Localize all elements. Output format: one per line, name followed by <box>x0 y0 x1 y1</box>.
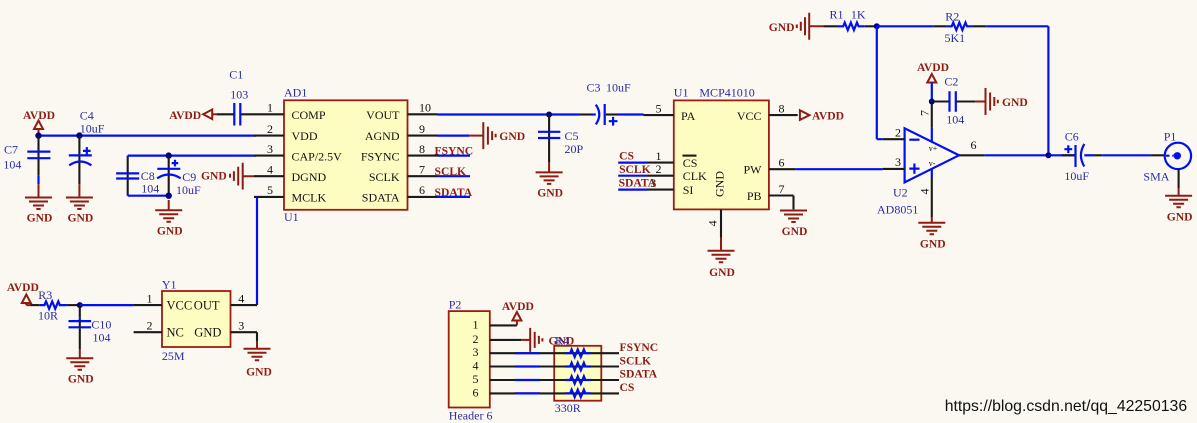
svg-text:6: 6 <box>473 385 479 399</box>
svg-text:OUT: OUT <box>194 298 220 312</box>
svg-text:GND: GND <box>194 326 221 340</box>
capacitor C8 <box>116 158 159 196</box>
svg-text:10uF: 10uF <box>80 122 105 136</box>
svg-text:C9: C9 <box>182 170 196 184</box>
svg-text:GND: GND <box>920 237 946 250</box>
wire VOUT net <box>438 113 581 115</box>
ground GND (U1 pin 4) <box>708 238 735 279</box>
svg-text:GND: GND <box>246 365 272 378</box>
power AVDD (U1 pin 8) <box>800 110 844 123</box>
svg-text:MCP41010: MCP41010 <box>699 86 754 100</box>
pin 2 U2 inverting <box>883 125 905 139</box>
svg-text:SI: SI <box>683 183 694 197</box>
svg-text:GND: GND <box>713 171 727 197</box>
capacitor C2 104 <box>932 75 976 127</box>
svg-text:FSYNC: FSYNC <box>361 149 400 163</box>
svg-text:GND: GND <box>1002 96 1028 109</box>
svg-text:2: 2 <box>895 125 901 139</box>
wire AD1 pin5 MCLK to Y1 OUT <box>256 197 258 305</box>
svg-text:VCC: VCC <box>737 109 762 123</box>
net label FSYNC <box>435 144 474 157</box>
pin 5 P2 wire + resistor R4c <box>490 376 619 384</box>
svg-text:Header 6: Header 6 <box>449 409 493 423</box>
pin 1 AD1 COMP <box>240 101 284 115</box>
svg-text:GND: GND <box>157 225 183 238</box>
svg-text:PW: PW <box>744 163 763 177</box>
capacitor C10 104 <box>69 305 112 358</box>
IC AD1 (AD9833 DDS) body <box>284 86 408 225</box>
wire C8 bottom to C9 bottom <box>128 194 169 196</box>
wire inverting feedback <box>877 26 883 139</box>
svg-text:8: 8 <box>779 101 785 115</box>
svg-text:9: 9 <box>419 122 425 136</box>
svg-text:GND: GND <box>27 212 53 225</box>
pin 4 Y1 OUT <box>231 291 258 305</box>
svg-text:3: 3 <box>473 345 479 359</box>
capacitor C3 10uF <box>580 81 644 126</box>
svg-text:AVDD: AVDD <box>812 110 844 123</box>
pin 6 U2 output <box>959 138 985 156</box>
svg-text:10: 10 <box>419 101 431 115</box>
svg-text:2: 2 <box>267 122 273 136</box>
svg-text:NC: NC <box>167 326 184 340</box>
svg-text:MCLK: MCLK <box>292 191 327 205</box>
capacitor C9 10uF <box>157 156 201 198</box>
svg-text:4: 4 <box>918 189 932 195</box>
pin 9 AD1 AGND <box>408 122 438 136</box>
svg-text:v-: v- <box>929 159 936 168</box>
svg-text:3: 3 <box>895 155 901 169</box>
pin 1 Y1 VCC <box>134 291 162 305</box>
svg-text:COMP: COMP <box>292 108 326 122</box>
svg-text:VCC: VCC <box>167 298 193 312</box>
svg-text:R2: R2 <box>945 10 959 24</box>
svg-text:SCLK: SCLK <box>435 165 467 178</box>
svg-text:1: 1 <box>473 317 479 331</box>
pin 3 U2 non-inverting <box>883 155 905 169</box>
svg-text:P2: P2 <box>449 298 462 312</box>
svg-text:C7: C7 <box>4 143 18 157</box>
pin 5 U1 PA <box>644 101 674 115</box>
svg-text:2: 2 <box>656 162 662 176</box>
resistor R2 5K1 <box>933 10 986 46</box>
svg-text:FSYNC: FSYNC <box>620 341 659 354</box>
svg-text:330R: 330R <box>555 401 581 415</box>
svg-text:7: 7 <box>419 162 425 176</box>
svg-text:1: 1 <box>656 149 662 163</box>
pin 5 AD1 MCLK <box>254 183 284 197</box>
pin 2 AD1 VDD <box>254 122 284 136</box>
svg-text:5: 5 <box>267 183 273 197</box>
svg-text:VDD: VDD <box>292 129 318 143</box>
svg-text:2: 2 <box>147 318 153 332</box>
pin 4 P2 wire + resistor R4b <box>490 363 619 371</box>
ground GND (under C9) <box>155 200 182 238</box>
capacitor C5 20P <box>538 115 584 173</box>
svg-text:AVDD: AVDD <box>7 281 39 294</box>
svg-text:104: 104 <box>3 157 21 171</box>
svg-text:SMA: SMA <box>1143 170 1169 184</box>
pin 7 U1 PB <box>769 182 794 209</box>
ground GND (P2 pin 2) <box>521 328 574 352</box>
pin 7 AD1 SCLK <box>408 162 438 176</box>
svg-text:5: 5 <box>656 101 662 115</box>
svg-text:C6: C6 <box>1065 130 1079 144</box>
ground GND (AD1 pin 4 DGND) <box>201 163 254 190</box>
svg-text:GND: GND <box>68 212 94 225</box>
svg-text:AD1: AD1 <box>284 86 307 100</box>
svg-text:GND: GND <box>537 187 563 200</box>
svg-text:U2: U2 <box>893 186 908 200</box>
net label SDATA <box>435 186 473 199</box>
svg-text:C3: C3 <box>587 81 601 95</box>
wire AD1 pin 9 to ground <box>438 135 470 137</box>
ground GND (Y1 pin 3) <box>244 341 272 378</box>
svg-text:1: 1 <box>147 291 153 305</box>
svg-text:10uF: 10uF <box>1064 169 1089 183</box>
svg-text:AVDD: AVDD <box>917 61 949 74</box>
svg-text:5: 5 <box>473 372 479 386</box>
svg-text:10uF: 10uF <box>176 183 201 197</box>
svg-text:R4: R4 <box>555 334 569 348</box>
svg-text:7: 7 <box>779 182 785 196</box>
svg-text:CS: CS <box>620 381 635 394</box>
svg-text:SDATA: SDATA <box>619 177 657 190</box>
pin 2 P2 <box>490 339 522 341</box>
oscillator Y1 25M body <box>162 278 231 363</box>
pin 3 Y1 GND <box>231 318 258 341</box>
svg-text:DGND: DGND <box>292 170 327 184</box>
resistor network R4 body <box>554 334 601 415</box>
power AVDD (R3) <box>7 281 39 305</box>
node junction C4 <box>76 132 82 138</box>
pin 10 AD1 VOUT <box>408 101 438 115</box>
ground GND (R1 left) <box>769 13 824 40</box>
power AVDD (P2 pin 1) <box>502 300 534 326</box>
svg-text:3: 3 <box>267 142 273 156</box>
svg-text:6: 6 <box>971 138 977 152</box>
node junction AVDD/C7 <box>35 132 41 138</box>
capacitor C4 10uF <box>69 109 105 198</box>
capacitor C1 103 <box>217 68 249 126</box>
svg-text:104: 104 <box>141 182 159 196</box>
svg-text:C5: C5 <box>565 129 579 143</box>
svg-text:4: 4 <box>238 291 244 305</box>
capacitor C6 10uF <box>1062 130 1151 184</box>
svg-text:Y1: Y1 <box>162 278 177 292</box>
svg-text:2: 2 <box>473 332 479 346</box>
pin 4 U2 V- <box>918 169 932 217</box>
node junction output/R2 <box>1045 152 1051 158</box>
power AVDD (AD1 pin 1) <box>169 109 216 122</box>
svg-text:R1: R1 <box>830 7 844 21</box>
wire AVDD rail to AD1 pin 2 <box>39 135 257 137</box>
svg-text:https://blog.csdn.net/qq_42250: https://blog.csdn.net/qq_42250136 <box>945 398 1188 415</box>
power AVDD (U2 pin 7) <box>917 61 949 102</box>
svg-text:4: 4 <box>473 359 479 373</box>
svg-text:VOUT: VOUT <box>366 108 400 122</box>
pin 1 U1 CS + net label CS <box>618 149 674 163</box>
svg-text:GND: GND <box>1167 211 1193 224</box>
svg-text:104: 104 <box>93 331 111 345</box>
pin 4 AD1 DGND <box>254 162 284 176</box>
svg-text:AD8051: AD8051 <box>877 203 918 217</box>
pin 4 U1 GND <box>706 209 721 237</box>
svg-text:P1: P1 <box>1164 129 1177 143</box>
svg-text:20P: 20P <box>565 142 584 156</box>
svg-text:CLK: CLK <box>683 169 707 183</box>
resistor R1 1K <box>823 7 876 30</box>
svg-text:10uF: 10uF <box>606 81 631 95</box>
svg-text:U1: U1 <box>674 86 689 100</box>
capacitor C7 <box>3 136 50 198</box>
ground GND (under C7) <box>25 198 52 225</box>
svg-text:SCLK: SCLK <box>619 163 651 176</box>
node junction R1/R2 <box>874 23 880 29</box>
svg-text:GND: GND <box>201 170 227 183</box>
svg-text:PB: PB <box>747 189 762 203</box>
ground GND (P1 shell) <box>1165 188 1192 224</box>
wire U2 output to C6 <box>985 154 1073 156</box>
svg-text:AVDD: AVDD <box>502 300 534 313</box>
svg-text:AVDD: AVDD <box>169 109 201 122</box>
pin 6 AD1 SDATA <box>408 183 438 197</box>
svg-text:104: 104 <box>946 113 964 127</box>
op-amp U2 AD8051 <box>877 128 959 216</box>
ground GND (U2 pin 4) <box>918 217 945 250</box>
pin 8 AD1 FSYNC <box>408 142 438 156</box>
ground GND (under C4) <box>66 198 93 225</box>
svg-text:SCLK: SCLK <box>620 354 652 367</box>
svg-text:7: 7 <box>918 110 932 116</box>
node junction R3/C10/Y1 <box>77 302 83 308</box>
svg-text:103: 103 <box>230 88 248 102</box>
connector P2 Header 6 body <box>449 298 493 423</box>
svg-text:U1: U1 <box>284 210 299 224</box>
power AVDD (top-left) <box>23 109 55 136</box>
ground GND (under C10) <box>66 358 93 385</box>
pin 8 U1 VCC <box>769 101 798 115</box>
ground GND (AD1 pin 9 AGND) <box>469 122 525 149</box>
wire junction to R2 <box>877 25 933 27</box>
svg-text:6: 6 <box>419 183 425 197</box>
net label SCLK <box>435 165 471 178</box>
svg-text:CS: CS <box>683 156 698 170</box>
pin 6 U1 PW <box>769 155 795 169</box>
resistor R3 10R <box>31 288 80 323</box>
svg-text:GND: GND <box>782 225 808 238</box>
svg-text:C2: C2 <box>944 75 958 89</box>
svg-text:GND: GND <box>769 21 795 34</box>
svg-text:v+: v+ <box>929 144 938 153</box>
svg-text:1: 1 <box>267 101 273 115</box>
wire U1 PW to op-amp <box>795 168 883 171</box>
svg-text:8: 8 <box>419 142 425 156</box>
svg-text:3: 3 <box>238 318 244 332</box>
svg-text:SCLK: SCLK <box>369 170 400 184</box>
pin 2 U1 CLK + net label SCLK <box>618 162 674 176</box>
svg-text:GND: GND <box>499 130 525 143</box>
wire R2 to output node <box>986 26 1048 155</box>
pin 3 AD1 CAP/2.5V <box>254 142 284 156</box>
svg-text:SDATA: SDATA <box>362 191 400 205</box>
svg-text:R3: R3 <box>38 288 52 302</box>
node junction C5 <box>546 112 552 118</box>
pin 6 P2 wire + resistor R4d <box>490 390 619 398</box>
svg-text:FSYNC: FSYNC <box>435 144 474 157</box>
ground GND (under C5) <box>536 172 563 199</box>
IC U1 MCP41010 body <box>674 86 769 210</box>
svg-text:5K1: 5K1 <box>945 31 966 45</box>
svg-text:25M: 25M <box>162 349 185 363</box>
svg-text:GND: GND <box>68 373 94 386</box>
pin 3 P2 wire + resistor R4a <box>490 349 619 357</box>
node junction C9 bottom <box>166 193 172 199</box>
svg-text:PA: PA <box>681 109 696 123</box>
svg-text:AGND: AGND <box>365 129 400 143</box>
svg-text:CS: CS <box>619 149 634 162</box>
svg-text:C1: C1 <box>229 68 243 82</box>
svg-text:C10: C10 <box>91 318 111 332</box>
svg-text:CAP/2.5V: CAP/2.5V <box>292 149 343 163</box>
svg-text:4: 4 <box>706 220 720 226</box>
connector P1 SMA <box>1143 129 1191 188</box>
wire R3 node to Y1 pin 1 <box>80 304 134 306</box>
svg-text:6: 6 <box>779 155 785 169</box>
ground GND (U1 pin 7 PB) <box>780 209 807 238</box>
pin 3 U1 SI + net label SDATA <box>618 176 674 190</box>
svg-text:C4: C4 <box>80 109 94 123</box>
wire AD1 pin 3 net <box>128 156 256 158</box>
svg-text:GND: GND <box>709 266 735 279</box>
svg-text:SDATA: SDATA <box>435 186 473 199</box>
svg-text:4: 4 <box>267 162 273 176</box>
pin 2 Y1 NC <box>134 318 162 332</box>
node junction C9 top <box>166 152 172 158</box>
ground GND (C2 right) <box>975 88 1027 115</box>
svg-text:1K: 1K <box>851 7 866 21</box>
node junction AVDD/C2 <box>929 99 935 105</box>
svg-text:SDATA: SDATA <box>620 368 658 381</box>
pin 1 P2 <box>490 324 517 326</box>
pin 7 U2 V+ <box>918 102 932 143</box>
